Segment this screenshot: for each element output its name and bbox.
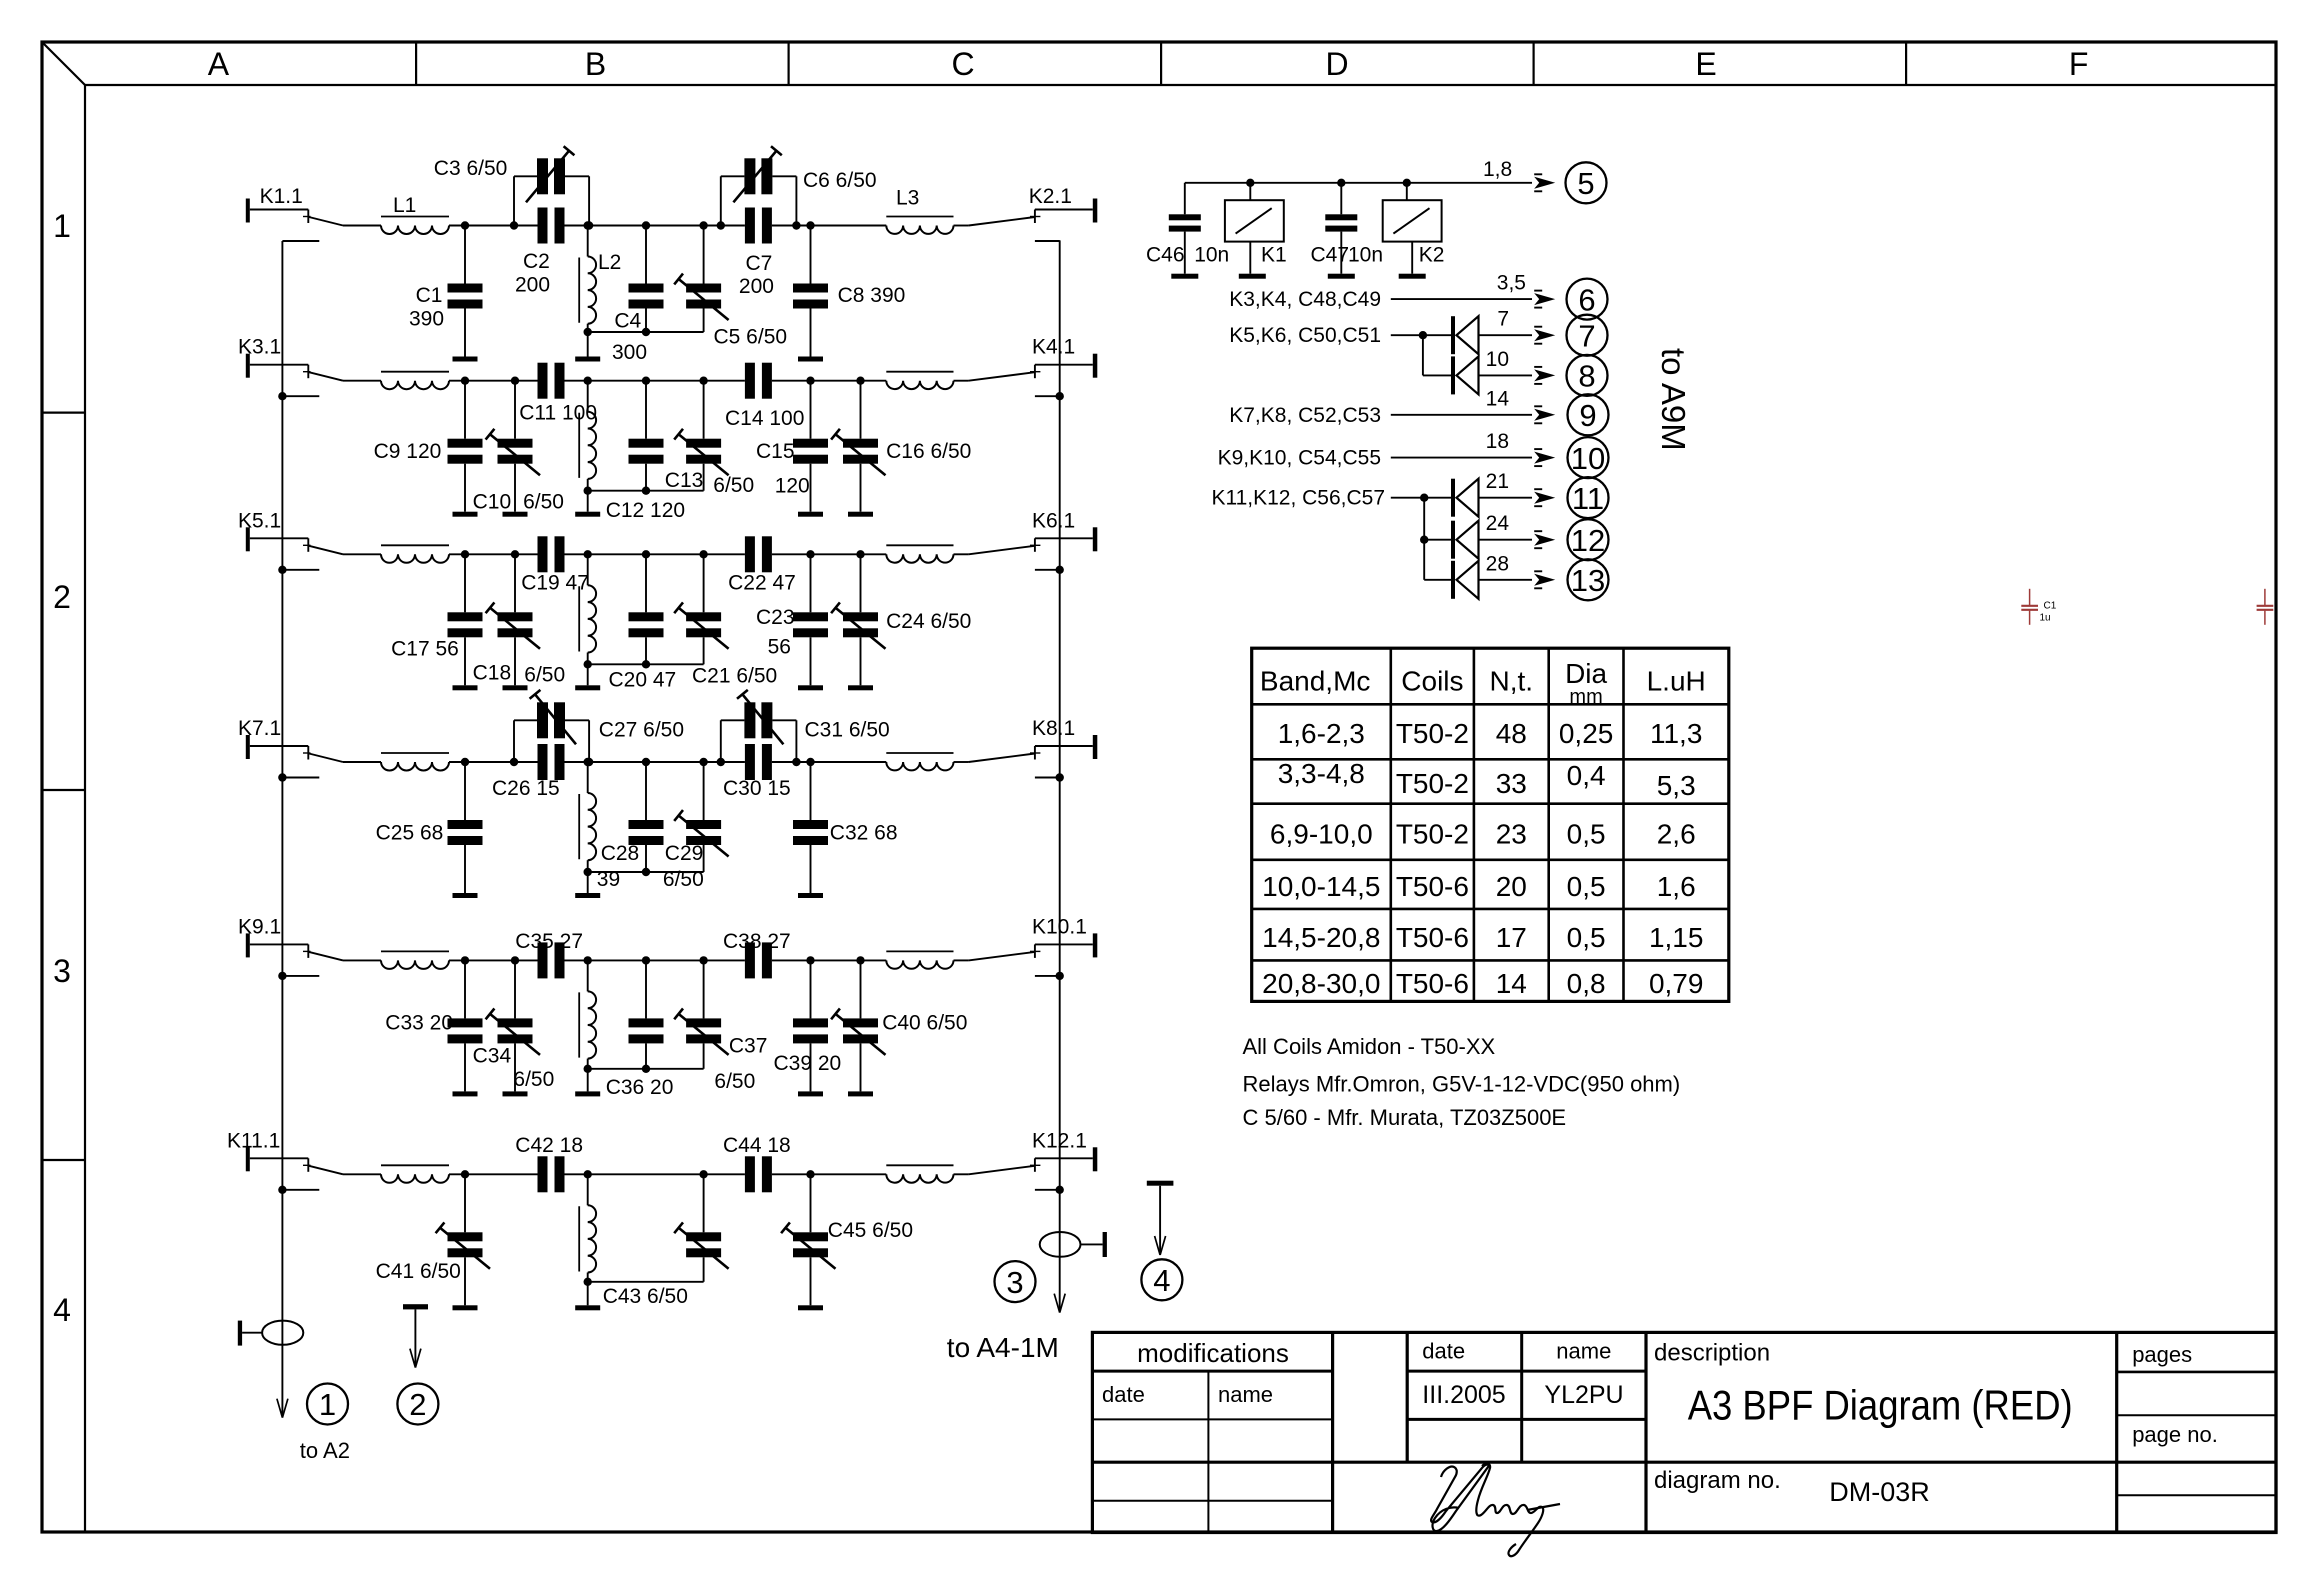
- node label 11: [1568, 477, 1609, 518]
- wire control pin 21: [1479, 470, 1556, 506]
- wire control pin 24: [1479, 512, 1556, 548]
- svg-text:Dia: Dia: [1565, 658, 1607, 689]
- svg-text:T50-2: T50-2: [1396, 818, 1469, 849]
- inductor row 6 left: [381, 1165, 449, 1183]
- wire right bus to A4-1M: [1059, 240, 1061, 1311]
- svg-text:23: 23: [1496, 818, 1527, 849]
- capacitor C22: [745, 536, 772, 572]
- svg-text:6,9-10,0: 6,9-10,0: [1270, 818, 1373, 849]
- svg-text:pages: pages: [2132, 1342, 2192, 1367]
- signature: [1431, 1464, 1560, 1557]
- svg-text:6/50: 6/50: [524, 664, 565, 687]
- svg-text:6/50: 6/50: [713, 474, 754, 497]
- ground C41: [453, 1305, 478, 1310]
- svg-text:B: B: [585, 46, 606, 82]
- relay contact K3.1: [238, 336, 343, 381]
- ground row 6 center: [575, 1305, 600, 1310]
- node label 3: [995, 1261, 1036, 1302]
- svg-text:C40 6/50: C40 6/50: [882, 1012, 967, 1035]
- relay contact K11.1: [227, 1129, 343, 1174]
- svg-text:N,t.: N,t.: [1490, 665, 1534, 696]
- svg-text:0,5: 0,5: [1567, 922, 1606, 953]
- svg-text:page no.: page no.: [2132, 1422, 2218, 1447]
- wire row 3 input: [343, 553, 381, 555]
- svg-text:1: 1: [319, 1387, 336, 1422]
- svg-text:C15: C15: [756, 440, 795, 463]
- svg-text:description: description: [1654, 1339, 1770, 1366]
- title block grid: [1092, 1332, 2276, 1532]
- svg-text:Coils: Coils: [1401, 665, 1463, 696]
- svg-text:to A9M: to A9M: [1655, 348, 1692, 451]
- capacitor C36: [629, 956, 664, 1073]
- frame left band row numbers 1-4: [53, 208, 71, 1328]
- node label 12: [1568, 519, 1609, 560]
- svg-text:14: 14: [1496, 968, 1527, 999]
- svg-text:6/50: 6/50: [714, 1070, 755, 1093]
- wire row 1 mid-right: [772, 225, 886, 227]
- capacitor C8: [793, 221, 828, 356]
- svg-text:YL2PU: YL2PU: [1544, 1381, 1623, 1409]
- trimmer capacitor C10: [486, 377, 540, 512]
- ground C33: [453, 1091, 478, 1096]
- wire control K7,K8 C52,C53 pin 14: [1229, 387, 1555, 427]
- wire row 4 mid-left: [565, 761, 647, 763]
- value labels row 2: [374, 401, 972, 522]
- svg-text:diagram no.: diagram no.: [1654, 1467, 1781, 1494]
- svg-text:Band,Mc: Band,Mc: [1260, 665, 1371, 696]
- svg-text:T50-2: T50-2: [1396, 768, 1469, 799]
- wire row 4 resonator rail: [584, 868, 704, 893]
- svg-text:8: 8: [1578, 359, 1595, 394]
- wire row 3 coil to series cap: [449, 553, 538, 555]
- node label 2: [397, 1384, 438, 1425]
- inductor row 5 center: [579, 956, 596, 1069]
- svg-text:C27 6/50: C27 6/50: [599, 719, 684, 742]
- wire bypass loop C6: [717, 176, 801, 229]
- ground C39: [798, 1091, 823, 1096]
- svg-text:C17 56: C17 56: [391, 637, 459, 660]
- inductor row 1 right L3: [886, 187, 953, 234]
- svg-text:K8.1: K8.1: [1032, 717, 1075, 740]
- wire row 5 input: [343, 959, 381, 961]
- value labels row 5: [385, 930, 967, 1099]
- svg-text:9: 9: [1579, 398, 1596, 433]
- wire row 3 mid-left: [565, 553, 647, 555]
- wire row 2 input: [343, 380, 381, 382]
- wire row 4 output: [954, 761, 969, 763]
- wire row 6 resonator rail: [584, 1278, 704, 1306]
- trimmer capacitor C34: [486, 956, 540, 1091]
- capacitor C46: [1169, 183, 1201, 274]
- ground row 5 center: [575, 1091, 600, 1096]
- capacitor C38: [745, 942, 772, 978]
- svg-text:0,5: 0,5: [1567, 871, 1606, 902]
- svg-text:C19 47: C19 47: [521, 571, 589, 594]
- svg-text:K4.1: K4.1: [1032, 336, 1075, 359]
- svg-text:C36 20: C36 20: [606, 1076, 674, 1099]
- svg-text:0,5: 0,5: [1567, 818, 1606, 849]
- inductor row 2 center: [579, 377, 596, 491]
- ground C18: [503, 685, 528, 690]
- trimmer capacitor C13: [674, 377, 728, 491]
- wire row 5 resonator rail: [584, 1065, 704, 1092]
- frame header letters A-F: [208, 46, 2089, 82]
- node label 8: [1567, 355, 1608, 396]
- svg-text:to A2: to A2: [300, 1438, 350, 1463]
- svg-text:F: F: [2069, 46, 2089, 82]
- svg-text:K1.1: K1.1: [260, 185, 303, 208]
- capacitor C4: [629, 221, 664, 336]
- svg-text:24: 24: [1486, 512, 1510, 535]
- inductor row 1 center L2: [579, 221, 621, 332]
- node label 13: [1568, 559, 1609, 600]
- svg-text:T50-6: T50-6: [1396, 922, 1469, 953]
- ground row 4 center: [575, 893, 600, 898]
- node row 1 N1: [461, 221, 469, 229]
- svg-text:C16 6/50: C16 6/50: [886, 440, 971, 463]
- inductor row 6 center: [579, 1170, 596, 1282]
- wire row 3 mid: [646, 553, 745, 555]
- trimmer capacitor C6: [733, 146, 781, 202]
- svg-text:C10: C10: [473, 491, 512, 514]
- svg-text:DM-03R: DM-03R: [1829, 1477, 1930, 1507]
- svg-text:0,25: 0,25: [1559, 718, 1614, 749]
- svg-text:K1: K1: [1261, 244, 1287, 267]
- svg-text:C9 120: C9 120: [374, 440, 442, 463]
- frame corner diagonal: [43, 43, 85, 85]
- inductor row 3 right: [886, 545, 953, 562]
- svg-text:C39 20: C39 20: [774, 1052, 842, 1075]
- label C47 10n: [1311, 244, 1384, 267]
- svg-text:K6.1: K6.1: [1032, 509, 1075, 532]
- node row 4 N1: [461, 758, 469, 766]
- svg-text:C5 6/50: C5 6/50: [714, 326, 788, 349]
- wire row 2 resonator rail: [584, 487, 704, 512]
- svg-text:11,3: 11,3: [1650, 718, 1702, 749]
- wire row 5 mid-left: [565, 959, 647, 961]
- wire row 3 output: [954, 553, 969, 555]
- wire row 3 mid-right: [772, 553, 886, 555]
- svg-text:48: 48: [1496, 718, 1527, 749]
- svg-text:3: 3: [53, 953, 71, 989]
- svg-text:C22 47: C22 47: [728, 571, 796, 594]
- wire control K5,K6 C50,C51: [1229, 324, 1451, 376]
- inductor row 3 left: [381, 545, 449, 563]
- svg-text:5: 5: [1577, 166, 1594, 201]
- svg-text:4: 4: [53, 1292, 71, 1328]
- label to A4-1M: [947, 1332, 1059, 1363]
- svg-text:12: 12: [1571, 523, 1605, 558]
- arrow right bus down: [1054, 1294, 1065, 1313]
- svg-text:20,8-30,0: 20,8-30,0: [1262, 968, 1380, 999]
- capacitor C30: [745, 744, 772, 780]
- svg-text:K7,K8, C52,C53: K7,K8, C52,C53: [1229, 404, 1381, 427]
- diode D5: [1451, 561, 1479, 599]
- diode D4: [1451, 521, 1479, 559]
- svg-text:1: 1: [53, 208, 71, 244]
- wire row 5 coil to series cap: [449, 959, 538, 961]
- svg-text:C34: C34: [473, 1044, 512, 1067]
- svg-text:C43 6/50: C43 6/50: [603, 1285, 688, 1308]
- wire row 4 coil to series cap: [449, 761, 538, 763]
- coil table header: [1260, 658, 1706, 708]
- capacitor C12: [629, 377, 664, 495]
- capacitor C35: [538, 942, 565, 978]
- svg-text:C: C: [951, 46, 974, 82]
- label to A9M: [1655, 348, 1692, 451]
- svg-text:C12 120: C12 120: [606, 499, 685, 522]
- node left bus stub row 1: [282, 240, 319, 242]
- diode D2: [1451, 356, 1479, 394]
- capacitor C17: [448, 554, 483, 685]
- svg-text:C4: C4: [614, 310, 641, 333]
- wire row 6 mid: [646, 1173, 745, 1175]
- trimmer capacitor C18: [486, 550, 540, 685]
- inductor row 6 right: [886, 1165, 953, 1182]
- wire row 6 mid-left: [565, 1173, 647, 1175]
- wire row 4 input: [343, 761, 381, 763]
- svg-text:C8 390: C8 390: [838, 284, 906, 307]
- svg-text:E: E: [1695, 46, 1716, 82]
- ground row 1 center: [575, 357, 600, 362]
- relay contact K2.1: [969, 185, 1098, 225]
- node label 6: [1567, 279, 1608, 320]
- svg-text:K7.1: K7.1: [238, 717, 281, 740]
- svg-text:C32 68: C32 68: [830, 822, 898, 845]
- ground row 2 center: [575, 512, 600, 517]
- node right bus stub row 3: [1035, 566, 1064, 574]
- value labels row 6: [376, 1134, 913, 1308]
- node label 10: [1568, 437, 1609, 478]
- inductor row 5 left: [381, 951, 449, 969]
- svg-text:K11,K12, C56,C57: K11,K12, C56,C57: [1211, 487, 1385, 510]
- svg-text:C 5/60 - Mfr. Murata, TZ03Z500: C 5/60 - Mfr. Murata, TZ03Z500E: [1243, 1105, 1567, 1130]
- relay contact K6.1: [969, 509, 1098, 554]
- wire control pin 10: [1479, 348, 1556, 384]
- svg-text:T50-6: T50-6: [1396, 871, 1469, 902]
- svg-text:C29: C29: [665, 842, 704, 865]
- svg-text:A: A: [208, 46, 230, 82]
- inductor row 5 right: [886, 951, 953, 968]
- capacitor C39: [793, 956, 828, 1091]
- svg-text:L2: L2: [598, 251, 621, 274]
- svg-text:C1: C1: [416, 284, 443, 307]
- ground K1: [1239, 274, 1266, 279]
- ground C34: [503, 1091, 528, 1096]
- svg-text:C33 20: C33 20: [385, 1012, 453, 1035]
- svg-text:10n: 10n: [1348, 244, 1383, 267]
- capacitor C23: [793, 550, 828, 685]
- svg-text:C11 100: C11 100: [519, 401, 597, 424]
- ground C32: [798, 893, 823, 898]
- diode D1: [1451, 316, 1479, 354]
- node left bus stub row 4: [278, 773, 319, 781]
- wire row 1 input: [343, 225, 381, 227]
- svg-text:K3,K4, C48,C49: K3,K4, C48,C49: [1229, 288, 1381, 311]
- svg-text:4: 4: [1153, 1263, 1170, 1298]
- capacitor C19: [538, 536, 565, 572]
- node left bus stub row 6: [278, 1186, 319, 1194]
- relay contact K7.1: [238, 717, 343, 762]
- ground C24: [848, 685, 873, 690]
- svg-text:C31 6/50: C31 6/50: [805, 719, 890, 742]
- trimmer capacitor C37: [674, 956, 728, 1069]
- svg-text:name: name: [1556, 1339, 1611, 1364]
- svg-text:200: 200: [739, 275, 774, 298]
- trimmer capacitor C21: [674, 550, 728, 664]
- wire row 2 mid-right: [772, 380, 886, 382]
- svg-text:date: date: [1102, 1382, 1145, 1407]
- svg-text:39: 39: [597, 868, 620, 891]
- relay contact K12.1: [969, 1129, 1098, 1174]
- wire row 1 resonator rail: [584, 328, 704, 357]
- wire row 1 output: [954, 225, 969, 227]
- wire row 2 mid: [646, 380, 745, 382]
- label C46 10n: [1146, 244, 1229, 267]
- node row 6 N1: [461, 1170, 469, 1178]
- svg-text:T50-2: T50-2: [1396, 718, 1469, 749]
- ground C46: [1171, 274, 1198, 279]
- capacitor C47: [1325, 183, 1357, 274]
- svg-text:K5,K6, C50,C51: K5,K6, C50,C51: [1229, 324, 1381, 347]
- relay contact K8.1: [969, 717, 1098, 762]
- ground C9: [453, 512, 478, 517]
- svg-text:C2: C2: [523, 250, 550, 273]
- svg-text:21: 21: [1486, 470, 1509, 493]
- ground C10: [503, 512, 528, 517]
- inductor row 2 left: [381, 372, 449, 390]
- svg-text:14,5-20,8: 14,5-20,8: [1262, 922, 1380, 953]
- svg-text:1u: 1u: [2040, 613, 2051, 624]
- svg-text:III.2005: III.2005: [1422, 1381, 1505, 1409]
- trimmer capacitor C29: [674, 758, 728, 872]
- value labels row 3: [391, 571, 971, 691]
- svg-text:D: D: [1325, 46, 1348, 82]
- ground C25: [453, 893, 478, 898]
- svg-text:K2.1: K2.1: [1029, 185, 1072, 208]
- svg-text:K11.1: K11.1: [227, 1129, 280, 1152]
- node row 2 N1: [461, 377, 469, 385]
- svg-text:3,5: 3,5: [1497, 272, 1526, 295]
- arrow left bus down: [277, 1399, 288, 1418]
- node label 7: [1567, 315, 1608, 356]
- svg-text:C6 6/50: C6 6/50: [803, 169, 877, 192]
- wire row 6 input: [343, 1173, 381, 1175]
- coil table data: [1262, 718, 1703, 999]
- svg-text:7: 7: [1578, 318, 1595, 353]
- svg-text:2,6: 2,6: [1657, 818, 1696, 849]
- svg-text:C18: C18: [473, 661, 512, 684]
- capacitor C20: [629, 550, 664, 668]
- title block labels: [1102, 1338, 2218, 1507]
- trimmer capacitor C41: [436, 1174, 490, 1305]
- capacitor C44: [745, 1156, 772, 1192]
- svg-text:L3: L3: [896, 187, 919, 210]
- svg-text:10: 10: [1571, 441, 1605, 476]
- svg-text:to A4-1M: to A4-1M: [947, 1332, 1059, 1363]
- svg-text:C23: C23: [756, 606, 795, 629]
- svg-text:C47: C47: [1311, 244, 1350, 267]
- inductor row 3 center: [579, 550, 596, 664]
- svg-text:18: 18: [1486, 430, 1509, 453]
- trimmer capacitor C3: [526, 146, 574, 202]
- trimmer capacitor C45: [781, 1170, 835, 1305]
- capacitor C33: [448, 960, 483, 1091]
- svg-text:K9.1: K9.1: [238, 915, 281, 938]
- svg-text:3,3-4,8: 3,3-4,8: [1278, 758, 1365, 789]
- wire row 2 mid-left: [565, 380, 647, 382]
- relay contact K10.1: [969, 915, 1098, 960]
- svg-text:C38 27: C38 27: [723, 930, 791, 953]
- ground C16: [848, 512, 873, 517]
- svg-text:L1: L1: [393, 194, 416, 217]
- svg-text:10n: 10n: [1194, 244, 1229, 267]
- svg-text:20: 20: [1496, 871, 1527, 902]
- svg-text:200: 200: [515, 273, 550, 296]
- capacitor C42: [538, 1156, 565, 1192]
- svg-text:C7: C7: [746, 252, 773, 275]
- relay contact K5.1: [238, 509, 343, 554]
- ground C45: [798, 1305, 823, 1310]
- svg-text:11: 11: [1572, 481, 1604, 516]
- value labels row 1: [409, 157, 905, 364]
- inductor row 1 left L1: [381, 194, 449, 234]
- capacitor C15: [793, 377, 828, 512]
- wire control K11,K12 C56,C57: [1211, 487, 1451, 580]
- ground C15: [798, 512, 823, 517]
- wire row 2 coil to series cap: [449, 380, 538, 382]
- svg-text:10: 10: [1486, 348, 1509, 371]
- svg-text:C13: C13: [665, 469, 704, 492]
- node right bus stub row 4: [1035, 773, 1064, 781]
- node label 4: [1141, 1259, 1182, 1300]
- trimmer capacitor C27: [530, 690, 576, 744]
- svg-text:C28: C28: [601, 842, 640, 865]
- capacitor C2: [538, 208, 565, 244]
- svg-text:modifications: modifications: [1137, 1338, 1289, 1368]
- svg-text:C42 18: C42 18: [515, 1134, 583, 1157]
- terminal 3 (right bus, to A4-1M): [1040, 1232, 1107, 1257]
- svg-text:1,15: 1,15: [1649, 922, 1704, 953]
- trimmer capacitor C31: [737, 690, 783, 744]
- svg-text:13: 13: [1571, 563, 1605, 598]
- svg-text:C35 27: C35 27: [515, 930, 583, 953]
- node row 3 N1: [461, 550, 469, 558]
- svg-text:6/50: 6/50: [663, 868, 704, 891]
- node label 1: [307, 1384, 348, 1425]
- svg-text:mm: mm: [1569, 686, 1602, 708]
- wire row 1 mid: [646, 225, 745, 227]
- inductor row 4 right: [886, 753, 953, 770]
- svg-text:C20 47: C20 47: [609, 668, 677, 691]
- wire bypass loop C27: [510, 720, 594, 766]
- wire relay supply rail 1,8: [1185, 174, 1555, 191]
- wire control pin 7: [1479, 308, 1556, 344]
- wire control pin 28: [1479, 552, 1556, 588]
- svg-text:L.uH: L.uH: [1647, 665, 1706, 696]
- svg-text:C30 15: C30 15: [723, 777, 791, 800]
- node label 9: [1568, 394, 1609, 435]
- ground K2: [1399, 274, 1426, 279]
- node right bus stub row 5: [1035, 972, 1064, 980]
- svg-text:C21 6/50: C21 6/50: [692, 664, 777, 687]
- node left bus stub row 5: [278, 972, 319, 980]
- svg-text:K3.1: K3.1: [238, 336, 281, 359]
- svg-text:C1: C1: [2044, 601, 2057, 612]
- svg-text:5,3: 5,3: [1657, 770, 1696, 801]
- svg-text:K9,K10, C54,C55: K9,K10, C54,C55: [1218, 447, 1381, 470]
- svg-text:14: 14: [1486, 387, 1510, 410]
